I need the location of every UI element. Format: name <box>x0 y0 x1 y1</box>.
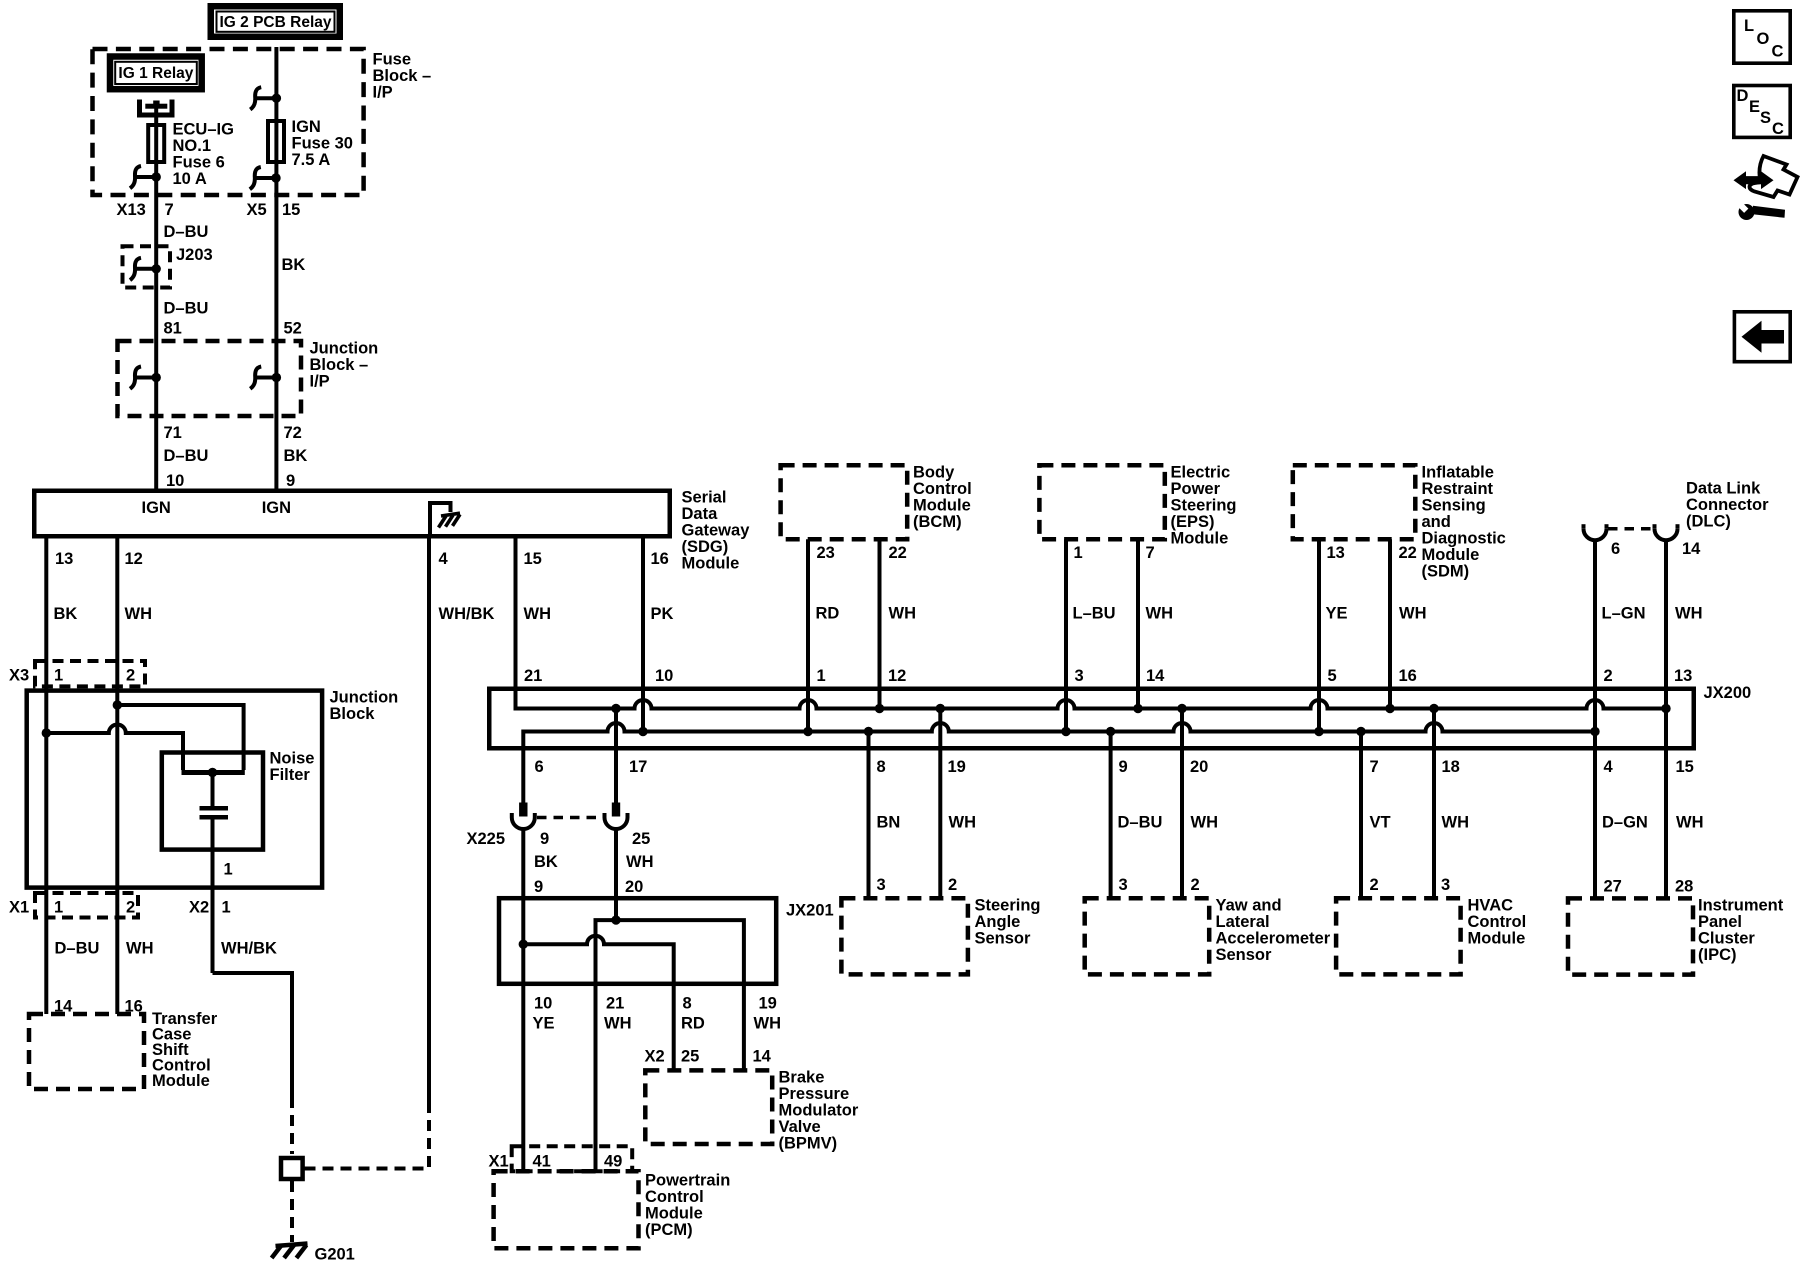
svg-text:Fuse 30: Fuse 30 <box>292 134 353 152</box>
svg-text:15: 15 <box>1676 758 1694 776</box>
module PCM dashed box <box>494 1171 639 1248</box>
svg-text:9: 9 <box>1119 758 1128 776</box>
svg-text:25: 25 <box>681 1048 699 1066</box>
svg-text:15: 15 <box>282 201 300 219</box>
svg-text:Block –: Block – <box>310 356 369 374</box>
JX200 bottom pin numbers <box>535 758 1694 776</box>
svg-text:5: 5 <box>1328 667 1337 685</box>
wire WH busA to Yaw sensor <box>1180 709 1184 899</box>
svg-text:(IPC): (IPC) <box>1698 946 1737 964</box>
wire D-BU busB to Yaw sensor <box>1109 732 1113 899</box>
svg-text:9: 9 <box>534 878 543 896</box>
svg-text:1: 1 <box>817 667 826 685</box>
svg-text:3: 3 <box>877 876 886 894</box>
wire WH DLC14 through bus to IPC28 <box>1664 540 1668 899</box>
svg-text:and: and <box>1422 513 1451 531</box>
svg-text:J203: J203 <box>176 246 213 264</box>
bottom wire color labels <box>877 814 1704 832</box>
svg-text:WH: WH <box>949 814 977 832</box>
svg-text:WH: WH <box>754 1015 782 1033</box>
svg-text:Electric: Electric <box>1171 464 1231 482</box>
svg-text:12: 12 <box>125 550 143 568</box>
noise filter bus bar <box>182 770 245 775</box>
DLC label <box>1686 480 1769 531</box>
svg-text:Cluster: Cluster <box>1698 930 1755 948</box>
connector X225 male blade right <box>612 803 620 817</box>
svg-text:21: 21 <box>606 995 624 1013</box>
connector X225 male blade left <box>519 803 527 817</box>
svg-text:22: 22 <box>1399 544 1417 562</box>
svg-text:22: 22 <box>889 544 907 562</box>
wire labels BK WH below X225 <box>534 853 654 871</box>
svg-text:WH: WH <box>626 853 654 871</box>
svg-text:Steering: Steering <box>975 897 1041 915</box>
internal ground wire in SDG <box>430 503 451 538</box>
wire WH BCM22 to bus A <box>878 539 882 708</box>
junction block box <box>27 691 322 888</box>
svg-text:WH: WH <box>1676 814 1704 832</box>
wire BN busB to SAS <box>867 732 871 899</box>
DLC dashed link <box>1608 527 1654 531</box>
svg-text:13: 13 <box>1674 667 1692 685</box>
svg-text:Block –: Block – <box>373 67 432 85</box>
svg-text:WH: WH <box>1675 605 1703 623</box>
svg-text:2: 2 <box>948 876 957 894</box>
wire WH SDM22 to bus A <box>1388 539 1392 708</box>
sensor Yaw pins 3 2 <box>1119 876 1200 894</box>
svg-text:Module: Module <box>682 555 740 573</box>
BPMV label <box>779 1069 859 1153</box>
svg-text:7.5 A: 7.5 A <box>292 151 331 169</box>
svg-text:Angle: Angle <box>975 913 1021 931</box>
svg-text:JX200: JX200 <box>1704 684 1752 702</box>
noise filter box <box>162 753 263 850</box>
JX201 lower bus with hop and exit wire 8 <box>523 936 673 1071</box>
svg-text:Fuse 6: Fuse 6 <box>173 153 225 171</box>
icon box back arrow <box>1734 312 1790 362</box>
JX201 junction box <box>499 898 776 984</box>
svg-text:3: 3 <box>1119 876 1128 894</box>
icon box DESC <box>1734 86 1790 139</box>
svg-text:20: 20 <box>625 878 643 896</box>
module steering angle sensor dashed box <box>841 898 968 974</box>
icon box LOC <box>1734 11 1790 63</box>
svg-text:81: 81 <box>164 319 182 337</box>
svg-text:ECU–IG: ECU–IG <box>173 120 234 138</box>
wire WH EPS7 to bus A <box>1136 539 1140 708</box>
svg-text:Module: Module <box>152 1072 210 1090</box>
svg-text:Panel: Panel <box>1698 913 1742 931</box>
svg-text:Lateral: Lateral <box>1216 913 1270 931</box>
svg-text:YE: YE <box>1326 605 1348 623</box>
JX200 top pin numbers <box>524 667 1692 685</box>
svg-text:49: 49 <box>604 1153 622 1171</box>
svg-text:WH/BK: WH/BK <box>439 605 495 623</box>
svg-text:16: 16 <box>1399 667 1417 685</box>
svg-text:25: 25 <box>632 830 650 848</box>
svg-text:IGN: IGN <box>292 118 321 136</box>
svg-text:X225: X225 <box>467 830 506 848</box>
BCM pin numbers 23 22 <box>817 544 907 562</box>
X1 pin numbers 41 49 <box>533 1153 623 1171</box>
wire WH pin12 <box>115 539 119 1015</box>
svg-text:(SDG): (SDG) <box>682 538 729 556</box>
wire WH busA to HVAC <box>1432 709 1436 899</box>
svg-text:(EPS): (EPS) <box>1171 513 1215 531</box>
svg-text:IG 2 PCB Relay: IG 2 PCB Relay <box>220 14 332 31</box>
connector X1 (junction block) dashed box <box>35 893 138 918</box>
fuse block I/P dashed box <box>93 49 364 195</box>
svg-text:WH: WH <box>1146 605 1174 623</box>
svg-text:BK: BK <box>534 853 558 871</box>
svg-text:Junction: Junction <box>330 689 399 707</box>
svg-text:Module: Module <box>913 497 971 515</box>
svg-text:WH: WH <box>126 940 154 958</box>
wire WH/BK jog right and down <box>213 973 293 1097</box>
svg-text:D: D <box>1737 87 1749 105</box>
svg-text:Sensor: Sensor <box>1216 946 1273 964</box>
connector DLC right half <box>1655 524 1678 540</box>
svg-text:10: 10 <box>166 472 184 490</box>
fuse block label <box>373 51 432 102</box>
X225 dashed link <box>537 816 602 820</box>
HVAC label <box>1468 897 1527 948</box>
svg-text:16: 16 <box>651 550 669 568</box>
JX201 top pin numbers 9 20 <box>534 878 643 896</box>
svg-text:12: 12 <box>888 667 906 685</box>
connector X3 dashed box <box>35 661 145 686</box>
switch below fuse 6 <box>130 166 161 188</box>
svg-text:27: 27 <box>1604 878 1622 896</box>
svg-text:BK: BK <box>282 256 306 274</box>
junction block label <box>330 689 399 724</box>
svg-text:17: 17 <box>629 758 647 776</box>
svg-text:Yaw and: Yaw and <box>1216 897 1282 915</box>
svg-text:1: 1 <box>1074 544 1083 562</box>
IPC label <box>1698 897 1784 965</box>
svg-text:6: 6 <box>1611 540 1620 558</box>
svg-text:L–BU: L–BU <box>1073 605 1116 623</box>
TCSCM pins 14 16 <box>54 998 143 1016</box>
svg-text:BN: BN <box>877 814 901 832</box>
bus wire A (upper, WH) with hops <box>516 539 1667 709</box>
svg-text:10: 10 <box>534 995 552 1013</box>
svg-text:2: 2 <box>126 899 135 917</box>
svg-text:RD: RD <box>816 605 840 623</box>
wire color labels D-BU WH WH/BK <box>55 940 277 958</box>
svg-text:X13: X13 <box>117 201 146 219</box>
svg-text:I/P: I/P <box>310 372 330 390</box>
DLC pin numbers 6 14 <box>1611 540 1701 558</box>
svg-text:WH/BK: WH/BK <box>221 940 277 958</box>
bus wire B (lower) with hops <box>523 723 1595 803</box>
svg-text:X2: X2 <box>189 899 209 917</box>
svg-text:7: 7 <box>1146 544 1155 562</box>
svg-text:IGN: IGN <box>142 499 171 517</box>
switch in junction block left <box>130 367 161 389</box>
wire WH X225 to JX201 <box>614 829 618 921</box>
splice square S201 <box>281 1158 303 1179</box>
svg-text:Control: Control <box>913 480 972 498</box>
wire L-GN/D-GN DLC6 through bus to IPC27 <box>1593 540 1597 899</box>
svg-text:7: 7 <box>165 201 174 219</box>
relay label box IG 1 Relay <box>110 57 202 90</box>
module SDM dashed box <box>1293 465 1416 539</box>
SDG module label <box>682 489 751 573</box>
svg-text:6: 6 <box>535 758 544 776</box>
svg-text:Valve: Valve <box>779 1118 821 1136</box>
module IPC dashed box <box>1568 898 1693 974</box>
svg-text:X1: X1 <box>9 899 29 917</box>
svg-text:S: S <box>1760 109 1771 127</box>
branch from BK wire to noise filter with hop <box>42 728 51 737</box>
svg-text:WH: WH <box>1399 605 1427 623</box>
svg-text:X2: X2 <box>645 1048 665 1066</box>
svg-text:Sensing: Sensing <box>1422 497 1486 515</box>
svg-text:L: L <box>1744 17 1754 35</box>
svg-text:(SDM): (SDM) <box>1422 563 1470 581</box>
branch from WH wire to noise filter <box>113 700 122 709</box>
svg-text:Brake: Brake <box>779 1069 825 1087</box>
connector DLC left half <box>1584 524 1607 540</box>
svg-text:1: 1 <box>222 899 231 917</box>
dashed wire to splice square <box>290 1097 294 1154</box>
svg-text:13: 13 <box>55 550 73 568</box>
svg-text:Diagnostic: Diagnostic <box>1422 530 1506 548</box>
svg-text:WH: WH <box>604 1015 632 1033</box>
svg-text:20: 20 <box>1190 758 1208 776</box>
icon transfer arrows and wrench <box>1734 156 1798 220</box>
svg-text:21: 21 <box>524 667 542 685</box>
svg-text:Block: Block <box>330 705 376 723</box>
svg-text:Modulator: Modulator <box>779 1102 859 1120</box>
wire WH busA to SAS <box>938 709 942 899</box>
capacitor in noise filter <box>200 773 229 974</box>
svg-text:7: 7 <box>1370 758 1379 776</box>
svg-text:Control: Control <box>645 1188 704 1206</box>
svg-text:WH: WH <box>125 605 153 623</box>
svg-text:Body: Body <box>913 464 955 482</box>
svg-text:L–GN: L–GN <box>1602 605 1646 623</box>
wire label D-BU 81 <box>164 299 209 337</box>
svg-text:Power: Power <box>1171 480 1221 498</box>
svg-text:Fuse: Fuse <box>373 51 412 69</box>
svg-text:3: 3 <box>1075 667 1084 685</box>
SDG bottom pin numbers <box>55 550 669 568</box>
svg-text:28: 28 <box>1675 878 1693 896</box>
svg-text:Inflatable: Inflatable <box>1422 464 1494 482</box>
svg-text:2: 2 <box>1604 667 1613 685</box>
wire BK pin13 <box>44 539 48 1015</box>
wire PK SDG16 to bus B <box>641 539 645 732</box>
wire RD BCM23 to bus B <box>806 539 810 731</box>
connector X2 pin labels 25 14 <box>645 1048 772 1066</box>
svg-text:Restraint: Restraint <box>1422 480 1494 498</box>
JX201 bottom pin numbers <box>534 995 777 1013</box>
svg-text:YE: YE <box>533 1015 555 1033</box>
svg-text:41: 41 <box>533 1153 551 1171</box>
svg-text:NO.1: NO.1 <box>173 137 212 155</box>
switch inside J203 <box>130 258 161 280</box>
svg-text:4: 4 <box>439 550 449 568</box>
svg-text:(BCM): (BCM) <box>913 513 962 531</box>
sensor SAS pins 3 2 <box>877 876 958 894</box>
svg-text:Module: Module <box>1171 530 1229 548</box>
svg-text:8: 8 <box>683 995 692 1013</box>
wire BK X225 to JX201/PCM <box>521 829 525 1172</box>
svg-text:Filter: Filter <box>270 766 311 784</box>
HVAC pins 2 3 <box>1370 876 1451 894</box>
module transfer case shift control dashed box <box>29 1014 144 1089</box>
svg-text:19: 19 <box>759 995 777 1013</box>
svg-text:1: 1 <box>54 667 63 685</box>
svg-text:Serial: Serial <box>682 489 727 507</box>
svg-text:(DLC): (DLC) <box>1686 513 1731 531</box>
wire WH/BK pin4 (solid part) <box>427 539 431 1103</box>
svg-text:Data: Data <box>682 505 719 523</box>
wire YE SDM13 to bus B <box>1317 539 1321 731</box>
svg-text:Module: Module <box>1468 930 1526 948</box>
svg-text:23: 23 <box>817 544 835 562</box>
junction block I/P label <box>310 339 379 390</box>
svg-text:(BPMV): (BPMV) <box>779 1135 838 1153</box>
svg-text:Connector: Connector <box>1686 496 1769 514</box>
svg-text:10 A: 10 A <box>173 170 207 188</box>
svg-text:Instrument: Instrument <box>1698 897 1784 915</box>
connector X1 dashed box <box>512 1146 633 1171</box>
svg-text:VT: VT <box>1370 814 1391 832</box>
svg-text:1: 1 <box>224 861 233 879</box>
fuse IGN Fuse 30 7.5A <box>268 121 284 162</box>
svg-text:WH: WH <box>1442 814 1470 832</box>
connector X225 female left <box>512 813 535 829</box>
svg-text:C: C <box>1772 120 1784 138</box>
wire VT busB to HVAC <box>1359 732 1363 899</box>
svg-text:X5: X5 <box>247 201 267 219</box>
svg-text:Sensor: Sensor <box>975 930 1032 948</box>
svg-text:14: 14 <box>753 1048 772 1066</box>
svg-text:1: 1 <box>54 899 63 917</box>
svg-text:Powertrain: Powertrain <box>645 1172 730 1190</box>
svg-text:IGN: IGN <box>262 499 291 517</box>
svg-text:WH: WH <box>524 605 552 623</box>
svg-text:O: O <box>1757 30 1770 48</box>
SDM pin numbers 13 22 <box>1327 544 1417 562</box>
EPS label <box>1171 464 1237 548</box>
Yaw sensor label <box>1216 897 1331 965</box>
connector pins X5 15 <box>247 201 301 219</box>
junction block I/P dashed box <box>118 341 302 416</box>
TCSCM label <box>152 1010 218 1090</box>
connector pins X13 7 <box>117 201 174 219</box>
splice J203 dashed box <box>123 246 171 287</box>
svg-text:13: 13 <box>1327 544 1345 562</box>
BCM label <box>913 464 972 532</box>
svg-text:WH: WH <box>1191 814 1219 832</box>
svg-text:2: 2 <box>1191 876 1200 894</box>
X3 label and pins <box>9 667 135 685</box>
svg-text:9: 9 <box>540 830 549 848</box>
svg-text:(PCM): (PCM) <box>645 1221 693 1239</box>
svg-text:Noise: Noise <box>270 750 315 768</box>
X2 label and pin <box>189 899 231 917</box>
svg-text:72: 72 <box>284 424 302 442</box>
svg-text:4: 4 <box>1604 758 1614 776</box>
svg-text:9: 9 <box>286 472 295 490</box>
svg-text:X3: X3 <box>9 667 29 685</box>
switch in junction block right <box>250 367 281 389</box>
svg-text:Pressure: Pressure <box>779 1085 850 1103</box>
fuse 30 value label <box>292 118 353 169</box>
svg-text:JX201: JX201 <box>786 902 834 920</box>
svg-text:D–BU: D–BU <box>1118 814 1163 832</box>
svg-text:D–GN: D–GN <box>1602 814 1648 832</box>
wire WH/BK pin4 (dashed part) <box>311 1102 429 1169</box>
module yaw lateral accelerometer dashed box <box>1085 898 1210 974</box>
svg-text:Gateway: Gateway <box>682 522 751 540</box>
svg-text:X1: X1 <box>489 1153 509 1171</box>
svg-text:Junction: Junction <box>310 339 379 357</box>
svg-text:RD: RD <box>681 1015 705 1033</box>
svg-text:14: 14 <box>1146 667 1165 685</box>
switch below fuse 30 <box>250 167 281 189</box>
svg-text:G201: G201 <box>315 1246 355 1264</box>
svg-text:D–BU: D–BU <box>164 447 209 465</box>
svg-text:10: 10 <box>655 667 673 685</box>
svg-text:BK: BK <box>54 605 78 623</box>
X1 label and pins <box>9 899 135 917</box>
svg-text:I/P: I/P <box>373 84 393 102</box>
svg-text:3: 3 <box>1441 876 1450 894</box>
SDM label <box>1422 464 1506 581</box>
svg-text:D–BU: D–BU <box>164 223 209 241</box>
svg-text:WH: WH <box>889 605 917 623</box>
svg-text:C: C <box>1772 43 1784 61</box>
X225 pin numbers 9 25 <box>540 830 650 848</box>
svg-text:E: E <box>1749 98 1760 116</box>
wire color labels below JX201 <box>533 1015 782 1033</box>
svg-text:2: 2 <box>126 667 135 685</box>
connector X225 female right <box>605 813 628 829</box>
svg-text:Module: Module <box>1422 546 1480 564</box>
svg-text:BK: BK <box>284 447 308 465</box>
internal chassis ground symbol <box>439 513 461 527</box>
wire ignition 2 branch (vertical) <box>274 47 278 489</box>
fuse 6 value label <box>173 120 234 188</box>
JX200 junction box <box>489 689 1694 749</box>
svg-text:Data Link: Data Link <box>1686 480 1761 498</box>
svg-text:15: 15 <box>524 550 542 568</box>
pins 71 / 72 and wire labels <box>164 424 209 490</box>
relay label box IG 2 PCB Relay <box>211 6 340 37</box>
svg-text:HVAC: HVAC <box>1468 897 1514 915</box>
svg-text:PK: PK <box>651 605 674 623</box>
top wire color labels <box>816 605 1703 623</box>
module HVAC dashed box <box>1336 898 1461 974</box>
wire WH busA to X225-25 <box>614 709 618 803</box>
IPC pins 27 28 <box>1604 878 1694 896</box>
fuse ECU-IG NO.1 Fuse 6 10A <box>148 125 164 162</box>
svg-text:D–BU: D–BU <box>164 299 209 317</box>
wire ignition 1 branch (vertical) <box>154 106 158 489</box>
svg-text:8: 8 <box>877 758 886 776</box>
module BCM dashed box <box>781 465 908 539</box>
svg-text:Control: Control <box>1468 913 1527 931</box>
svg-text:2: 2 <box>1370 876 1379 894</box>
svg-text:18: 18 <box>1442 758 1460 776</box>
switch top of IGN fuse 30 <box>250 87 281 109</box>
noise filter label <box>270 750 315 785</box>
